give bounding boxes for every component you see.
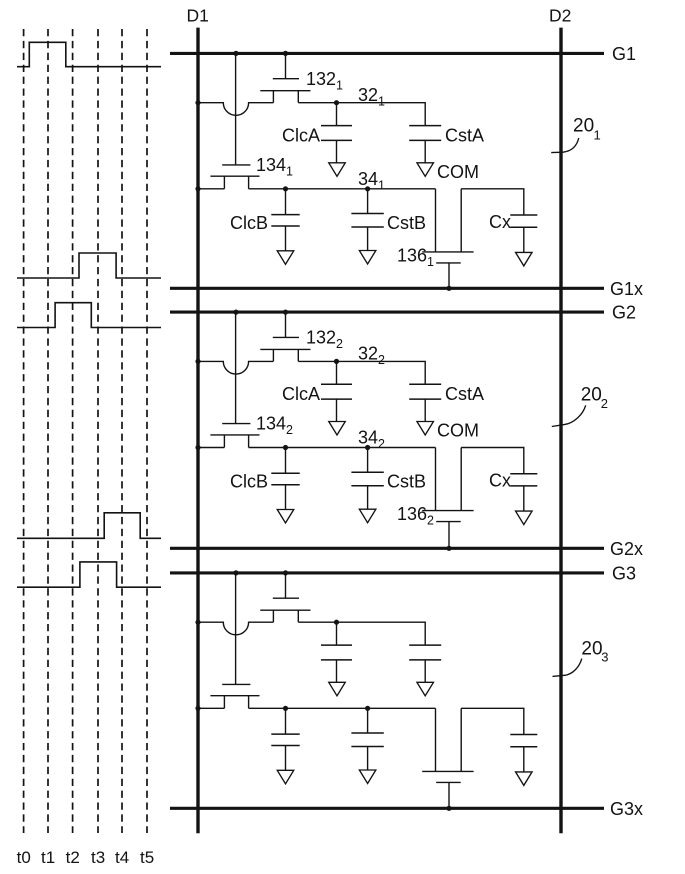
svg-text:Cx: Cx: [489, 212, 511, 232]
transistor 132_3: [260, 574, 310, 622]
ground of CstA (row 1) / COM terminal: [417, 163, 434, 177]
svg-text:20: 20: [581, 639, 602, 660]
svg-text:3: 3: [601, 650, 608, 665]
junction dot node 32_2: [334, 359, 339, 364]
capacitor ClcB (row 3): [271, 708, 299, 770]
ground of CstA (row 2) / COM terminal: [417, 422, 434, 436]
wire node 32_1 (132_1 to CstA): [298, 103, 425, 126]
wire node 34_1 (134_1 to 136_1): [249, 188, 436, 190]
ground of ClcA (row 1): [329, 163, 346, 177]
svg-text:321: 321: [358, 85, 385, 109]
ground of ClcB (row 2): [277, 510, 294, 524]
gate line G3: [170, 571, 604, 574]
junction dot on D1 (node 34 wire, row 3): [195, 706, 200, 711]
svg-text:G3: G3: [612, 563, 636, 583]
junction dot on G1x (136_1 gate): [446, 286, 451, 291]
svg-text:ClcA: ClcA: [282, 125, 320, 145]
svg-text:t1: t1: [41, 848, 55, 867]
dashed time marker t0: [23, 29, 25, 833]
wire node 34_2 (134_2 to 136_2): [249, 447, 436, 449]
ground of Cx (row 1): [516, 252, 533, 266]
svg-text:D1: D1: [187, 6, 209, 26]
wire D1 to 134_1 source: [198, 188, 224, 190]
dashed time marker t3: [97, 29, 99, 833]
junction dot on G3x (136_3 gate): [446, 806, 451, 811]
dashed time marker t4: [121, 29, 123, 833]
gate line G3x: [170, 807, 604, 810]
ground of ClcA (row 2): [329, 422, 346, 436]
capacitor CstA (row 1): [409, 126, 441, 163]
svg-text:G1x: G1x: [610, 279, 643, 299]
dashed time marker t1: [47, 29, 49, 833]
capacitor CstB (row 3): [351, 708, 383, 770]
wire D1 to 132_3 with hop over 134_3 gate lead: [198, 622, 273, 635]
svg-text:ClcA: ClcA: [282, 384, 320, 404]
ground of ClcB (row 1): [277, 251, 294, 264]
svg-text:t0: t0: [17, 848, 31, 867]
capacitor ClcB (row 2): [271, 448, 299, 510]
gate line G1x: [170, 287, 604, 290]
svg-text:341: 341: [358, 169, 385, 193]
capacitor ClcA (row 2): [321, 361, 352, 421]
svg-text:1362: 1362: [397, 504, 434, 528]
data line D1: [196, 28, 199, 834]
waveform G2 pulse: [17, 303, 161, 328]
dashed time marker t2: [72, 29, 74, 833]
capacitor CstB (row 1): [351, 189, 383, 251]
capacitor ClcA (row 1): [321, 103, 352, 163]
capacitor ClcB (row 1): [271, 189, 299, 251]
svg-text:ClcB: ClcB: [230, 213, 268, 233]
transistor 136_2: [422, 448, 473, 549]
junction dot on G1 (gate tap of 134_1): [233, 51, 238, 56]
data line D2: [559, 28, 562, 834]
svg-text:ClcB: ClcB: [230, 472, 268, 492]
junction dot on D1 (node 32 wire, row 3): [195, 620, 200, 625]
transistor 134_1: [210, 55, 259, 189]
junction dot node 32_3: [334, 620, 339, 625]
junction dot on D1 (node 34 wire, row 1): [195, 186, 200, 191]
waveform G2x pulse: [17, 513, 161, 539]
label 20_2 with leader arc: [552, 385, 608, 427]
capacitor Cx (row 1): [510, 215, 537, 252]
svg-text:342: 342: [358, 428, 385, 452]
svg-text:t3: t3: [91, 848, 105, 867]
svg-text:1321: 1321: [306, 69, 343, 93]
wire 136_1 drain to Cx: [461, 189, 524, 215]
svg-text:t5: t5: [140, 848, 154, 867]
capacitor Cx (row 2): [510, 474, 537, 511]
label 20_1 with leader arc: [551, 116, 601, 153]
gate line G2x: [170, 547, 604, 550]
svg-text:t4: t4: [115, 848, 129, 867]
capacitor Cx (row 3): [510, 735, 537, 772]
svg-text:Cx: Cx: [489, 471, 511, 491]
transistor 136_3: [422, 708, 473, 808]
junction dot on G2 (gate tap of 132_2): [283, 310, 288, 315]
svg-text:1342: 1342: [256, 414, 293, 438]
svg-text:CstB: CstB: [387, 213, 426, 233]
wire 136_2 drain to Cx: [461, 448, 524, 474]
svg-text:CstB: CstB: [387, 472, 426, 492]
ground of CstB (row 2): [359, 509, 376, 523]
svg-text:COM: COM: [437, 421, 479, 441]
wire 136_3 drain to Cx: [461, 708, 524, 734]
svg-text:G2: G2: [612, 303, 636, 323]
svg-text:322: 322: [358, 344, 385, 368]
junction dot node 34 wire at ClcB tap (row 3): [283, 706, 288, 711]
dashed time marker t5: [146, 29, 148, 833]
transistor 132_2: [260, 314, 310, 362]
wire D1 to 132_2 with hop over 134_2 gate lead: [198, 361, 273, 374]
svg-text:G1: G1: [612, 44, 636, 64]
wire node 32_2 (132_2 to CstA): [298, 361, 425, 384]
waveform G1x pulse: [17, 253, 161, 278]
junction dot on G3 (gate tap of 132_3): [283, 570, 288, 575]
junction dot on G2 (gate tap of 134_2): [233, 310, 238, 315]
wire D1 to 132_1 with hop over 134_1 gate lead: [198, 103, 273, 116]
gate line G2: [170, 311, 604, 314]
waveform G1 pulse: [17, 42, 161, 66]
svg-text:1361: 1361: [397, 245, 434, 269]
junction dot on G3 (gate tap of 134_3): [233, 570, 238, 575]
junction dot on D1 (node 34 wire, row 2): [195, 445, 200, 450]
wire node 34_3 (134_3 to 136_3): [249, 707, 436, 709]
transistor 134_2: [210, 314, 259, 448]
ground of ClcA (row 3): [329, 682, 346, 696]
svg-text:G2x: G2x: [610, 539, 643, 559]
ground of Cx (row 2): [516, 511, 533, 524]
junction dot node 34_1: [365, 186, 370, 191]
svg-text:1341: 1341: [256, 155, 293, 179]
ground of CstA (row 3) / COM terminal: [417, 682, 434, 696]
junction dot node 34 wire at ClcB tap (row 1): [283, 186, 288, 191]
ground of Cx (row 3): [516, 772, 533, 786]
junction dot on G2x (136_2 gate): [446, 546, 451, 551]
ground of ClcB (row 3): [277, 770, 294, 784]
gate line G1: [170, 52, 604, 55]
svg-text:2: 2: [601, 396, 608, 411]
junction dot node 34_3: [365, 706, 370, 711]
transistor 134_3: [210, 574, 259, 708]
wire node 32_3 (132_3 to CstA): [298, 622, 425, 645]
label 20_3 with leader arc: [553, 639, 609, 677]
svg-text:20: 20: [573, 116, 594, 137]
svg-text:COM: COM: [437, 162, 479, 182]
transistor 132_1: [260, 55, 310, 103]
capacitor CstB (row 2): [351, 448, 383, 510]
svg-text:D2: D2: [549, 6, 571, 26]
capacitor ClcA (row 3): [321, 622, 352, 682]
wire D1 to 134_3 source: [198, 707, 224, 709]
capacitor CstA (row 2): [409, 384, 441, 421]
junction dot on D1 (node 32 wire, row 1): [195, 100, 200, 105]
waveform G3 pulse: [17, 562, 161, 587]
transistor 136_1: [422, 189, 473, 288]
svg-text:CstA: CstA: [445, 384, 484, 404]
junction dot on D1 (node 32 wire, row 2): [195, 359, 200, 364]
junction dot on G1 (gate tap of 132_1): [283, 51, 288, 56]
svg-text:CstA: CstA: [445, 125, 484, 145]
wire D1 to 134_2 source: [198, 447, 224, 449]
ground of CstB (row 1): [359, 251, 376, 265]
junction dot node 34 wire at ClcB tap (row 2): [283, 445, 288, 450]
svg-text:G3x: G3x: [610, 799, 643, 819]
junction dot node 32_1: [334, 100, 339, 105]
svg-text:t2: t2: [66, 848, 80, 867]
capacitor CstA (row 3): [409, 645, 441, 682]
svg-text:1322: 1322: [306, 328, 343, 352]
junction dot node 34_2: [365, 445, 370, 450]
svg-text:1: 1: [594, 128, 601, 143]
svg-text:20: 20: [581, 385, 602, 406]
ground of CstB (row 3): [359, 770, 376, 784]
